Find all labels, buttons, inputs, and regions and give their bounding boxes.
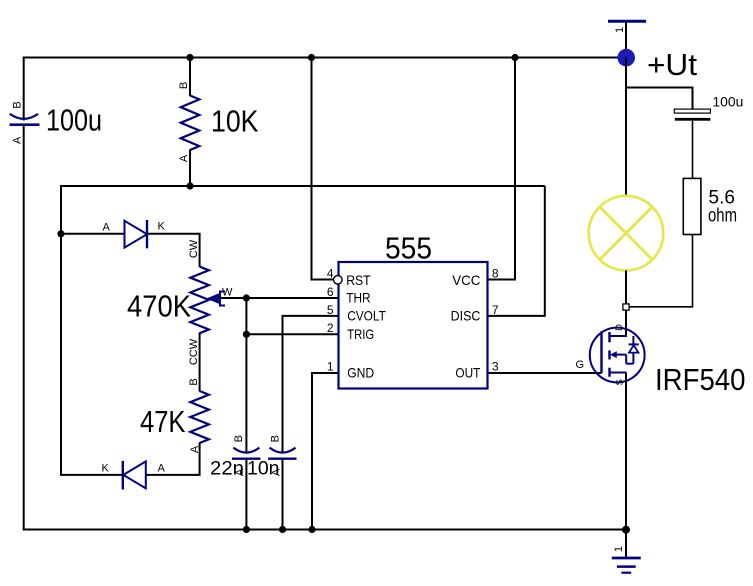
wire pot CCW to 47K (199, 333, 201, 392)
op-amp/timer U1 555 box (339, 262, 488, 389)
svg-text:IRF540: IRF540 (655, 362, 746, 397)
svg-text:6: 6 (327, 285, 334, 299)
svg-text:B: B (12, 101, 24, 108)
svg-text:555: 555 (385, 231, 432, 266)
svg-text:B: B (233, 435, 245, 442)
wire bottom rail (24, 529, 626, 531)
wire TRIG pin 2 horizontal (246, 333, 338, 335)
wire lamp to MOSFET drain (625, 271, 627, 338)
capacitor C1 100u (electrolytic, left rail) (10, 114, 40, 125)
wire 5.6ohm to drain pad (629, 235, 693, 307)
wire 10K branch top lead (189, 57, 191, 97)
svg-text:8: 8 (492, 267, 499, 281)
svg-text:100u: 100u (46, 103, 102, 138)
node +Ut junction (blue dot) (617, 49, 635, 67)
node: 22n on bottom rail (243, 526, 250, 533)
wire CVOLT pin 5 to 10n riser (283, 316, 339, 453)
svg-text:ohm: ohm (708, 206, 737, 227)
wire MOSFET source to ground (625, 373, 627, 558)
svg-text:1: 1 (614, 27, 626, 33)
diode D1 (125, 220, 148, 248)
svg-text:5: 5 (327, 303, 334, 317)
svg-text:+Ut: +Ut (647, 47, 697, 82)
node: source on bottom rail (622, 526, 630, 534)
svg-text:7: 7 (492, 303, 499, 317)
node: D1 anode on left loop (57, 230, 64, 237)
svg-text:B: B (188, 378, 200, 385)
svg-text:10n: 10n (247, 459, 280, 480)
drain pad square (623, 304, 629, 310)
wire left rail lower segment (23, 125, 25, 531)
wire 22n to bottom rail (245, 459, 247, 530)
wire 22n riser (245, 298, 247, 453)
wire right vertical: dot to lamp (625, 58, 627, 197)
wire top rail (23, 57, 626, 59)
capacitor C4 100u (snubber) (674, 109, 710, 121)
svg-text:1: 1 (613, 546, 625, 552)
svg-text:A: A (12, 136, 24, 144)
svg-text:K: K (102, 463, 110, 475)
wire diode D1 anode lead (61, 233, 125, 235)
svg-text:THR: THR (346, 290, 370, 306)
wire left rail upper segment (23, 57, 25, 121)
wire wiper to THR pin 6 (218, 297, 339, 299)
resistor R3 5.6 ohm (box style) (683, 178, 701, 234)
resistor R1 10K body (181, 96, 200, 151)
lamp LP1 (589, 196, 664, 271)
svg-text:470K: 470K (127, 289, 191, 324)
svg-text:GND: GND (347, 364, 374, 380)
node: 10n on bottom rail (279, 526, 286, 533)
svg-text:K: K (158, 221, 166, 233)
svg-text:47K: 47K (140, 404, 186, 439)
svg-text:A: A (158, 463, 166, 475)
wire D2 cathode lead (61, 474, 123, 476)
svg-text:RST: RST (346, 272, 371, 288)
wire GND pin 1 to bottom rail (312, 373, 339, 530)
wire left loop vertical (60, 185, 62, 476)
svg-text:4: 4 (327, 267, 334, 281)
wire 10K branch bottom lead (189, 150, 191, 187)
node: wiper junction (243, 294, 250, 301)
wire 10n to bottom rail (282, 459, 284, 530)
wire 47K bottom lead to D2 anode (145, 443, 200, 475)
wire mid rail (junction under 10K to DISC riser) (61, 185, 545, 187)
wire VCC pin 8 to top rail (487, 58, 515, 280)
U1 RST inversion bubble (334, 276, 343, 285)
wire branch: +Ut to snubber (626, 88, 693, 110)
svg-text:TRIG: TRIG (347, 326, 374, 342)
svg-text:A: A (178, 154, 190, 162)
svg-text:DISC: DISC (451, 308, 481, 324)
power terminal +Ut bar (608, 20, 646, 23)
node: 10K top on rail (186, 54, 193, 61)
svg-text:100u: 100u (712, 93, 743, 109)
ground symbol (612, 558, 641, 573)
svg-text:10K: 10K (211, 104, 259, 139)
capacitor C3 10n (268, 448, 296, 459)
svg-text:CCW: CCW (188, 338, 200, 365)
node: TRIG junction (243, 331, 250, 338)
svg-text:OUT: OUT (455, 364, 480, 380)
svg-text:G: G (576, 359, 585, 371)
svg-text:B: B (178, 82, 190, 89)
capacitor C2 22n (232, 448, 260, 459)
wire cap to 5.6ohm (692, 121, 694, 179)
wire diode D1 cathode lead to pot CW (147, 234, 200, 267)
svg-text:A: A (103, 222, 111, 234)
transistor Q1 IRF540 (590, 328, 645, 383)
svg-text:22n: 22n (210, 459, 244, 480)
diode D2 (123, 461, 146, 490)
potentiometer VR1 wiper arrow (208, 294, 220, 304)
svg-text:W: W (222, 287, 233, 299)
svg-text:1: 1 (327, 360, 334, 374)
potentiometer VR1 470K body (190, 267, 209, 334)
wire RST pin 4 to top rail (312, 58, 335, 280)
svg-text:S: S (615, 379, 626, 385)
resistor R2 47K body (190, 391, 209, 443)
svg-text:CVOLT: CVOLT (347, 308, 386, 324)
wire terminal stub (625, 21, 627, 57)
svg-text:CW: CW (188, 239, 200, 258)
svg-text:D: D (614, 324, 625, 331)
wire OUT pin 3 to MOSFET gate (487, 372, 602, 374)
node: RST riser on rail (308, 54, 315, 61)
svg-text:VCC: VCC (452, 272, 480, 288)
node: VCC riser on rail (511, 54, 518, 61)
node: 10K bottom on mid rail (186, 182, 193, 189)
node: GND riser on bottom rail (308, 526, 315, 533)
svg-text:B: B (270, 435, 282, 442)
svg-text:2: 2 (327, 321, 334, 335)
svg-text:3: 3 (492, 360, 499, 374)
wire DISC pin 7 to mid rail (487, 186, 545, 316)
